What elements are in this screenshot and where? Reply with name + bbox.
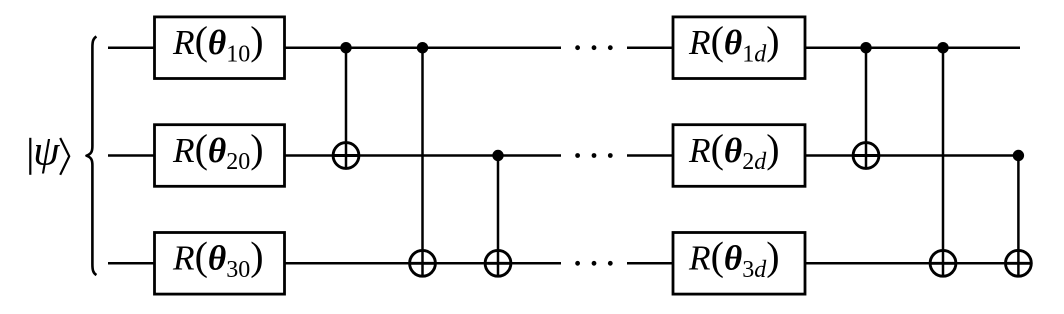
svg-text:R(θ10): R(θ10) — [172, 18, 264, 67]
svg-text:R(θ1d): R(θ1d) — [688, 18, 780, 67]
svg-text:ψ: ψ — [33, 129, 60, 175]
svg-text:R(θ20): R(θ20) — [172, 126, 264, 175]
svg-text:R(θ30): R(θ30) — [172, 234, 264, 283]
svg-text:R(θ3d): R(θ3d) — [688, 234, 780, 283]
svg-text:R(θ2d): R(θ2d) — [688, 126, 780, 175]
